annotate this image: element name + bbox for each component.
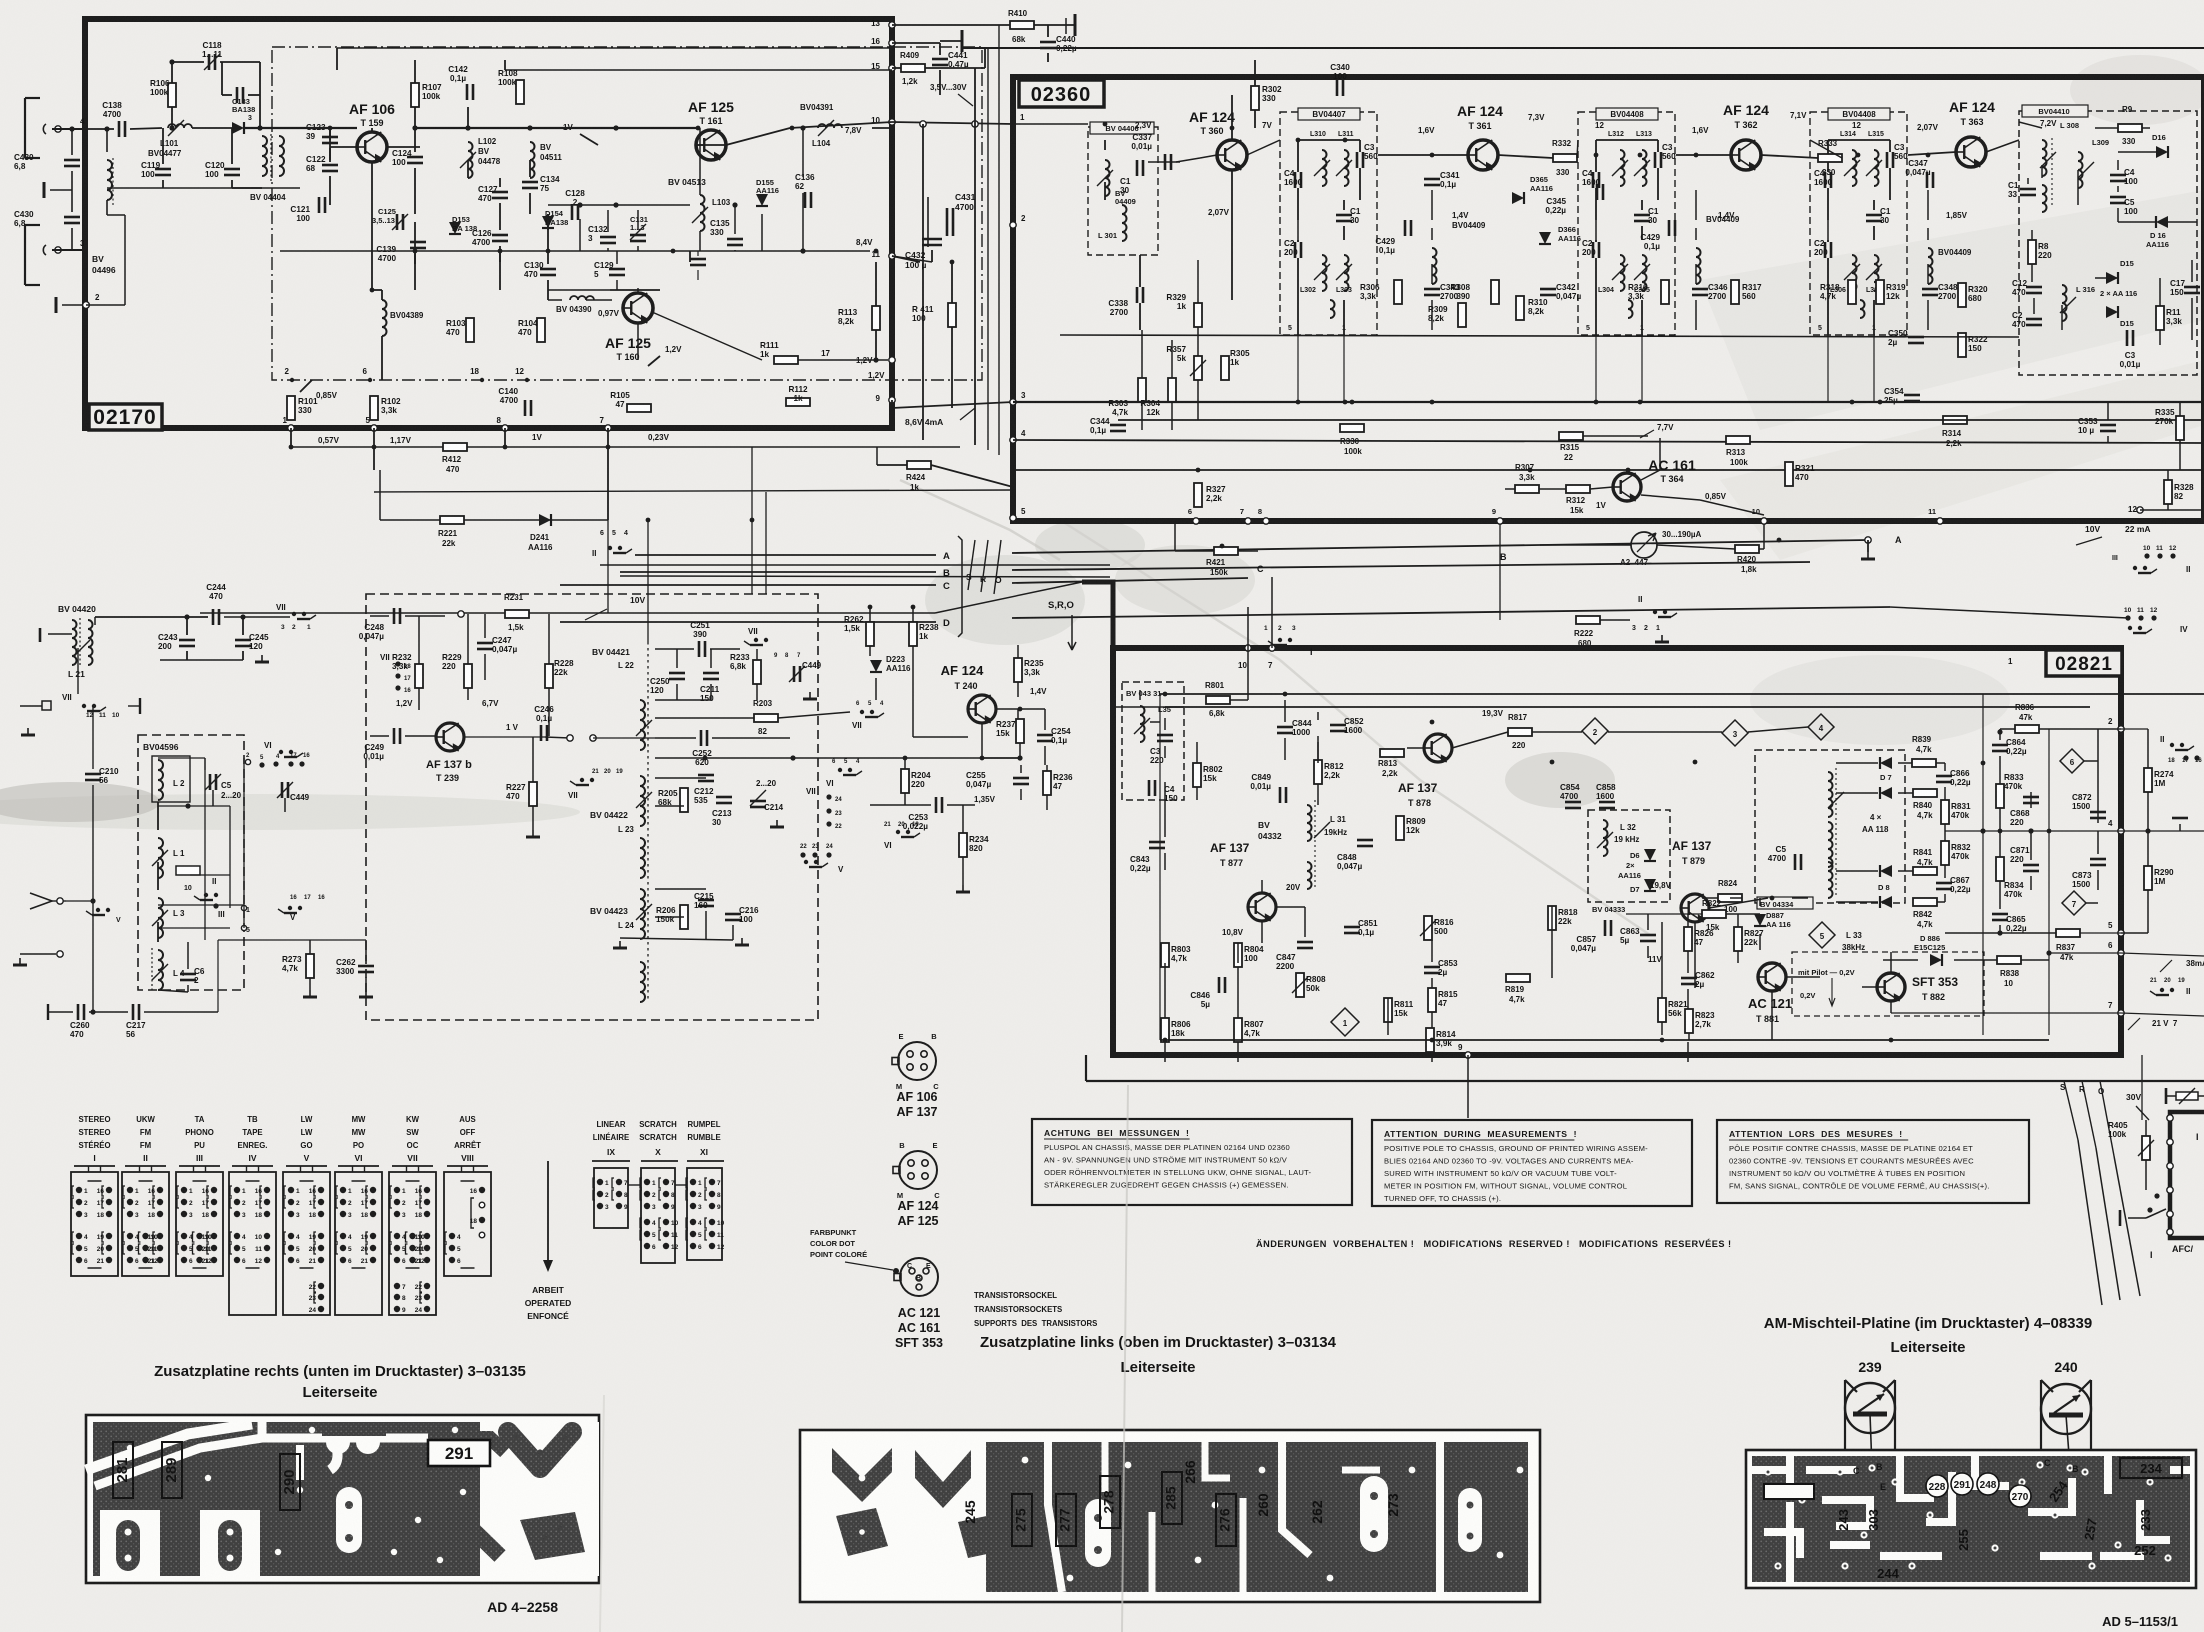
resistor R274 (2144, 768, 2152, 792)
resistor R804 (1234, 943, 1242, 967)
transistor socket AC121 AC161 SFT353 (900, 1258, 938, 1296)
inductor L308 (2042, 140, 2047, 176)
ground (741, 938, 743, 945)
inductor BV04409d (1928, 248, 1933, 284)
label 02170 (89, 404, 162, 430)
resistor R290 (2144, 866, 2152, 890)
dash box BV04333 (1588, 810, 1670, 902)
capacitor C865 (1992, 913, 2008, 916)
resistor R320 (1958, 283, 1966, 307)
resistor R409 (901, 64, 925, 72)
switch contact (1288, 638, 1292, 642)
capacitor C12 (2026, 286, 2042, 289)
resistor R310 (1516, 296, 1524, 320)
inductor L21 core (77, 648, 79, 694)
capacitor C340 (1336, 80, 1339, 96)
capacitor C2 200 (1824, 242, 1827, 258)
trim resistor top (2176, 1092, 2198, 1100)
resistor R329 (1194, 303, 1202, 327)
transistor T364 AC161 (1613, 473, 1641, 501)
coupling coil (1628, 300, 1633, 318)
transistor T881 AC121 (1758, 963, 1786, 991)
resistor R816 (1424, 916, 1432, 940)
switch contact (2133, 566, 2137, 570)
capacitor C214 trim (750, 800, 766, 803)
resistor R357 (1194, 356, 1202, 380)
long wire r801 (1160, 693, 2204, 695)
capacitor C5 dec (1794, 854, 1797, 870)
capacitor C858 (1599, 801, 1615, 804)
capacitor C123 (322, 136, 338, 139)
input coil BV04496 (107, 160, 112, 200)
diode D154 BA138 (542, 216, 554, 228)
resistor R227 (529, 782, 537, 806)
dash box BV04334 (1755, 750, 1905, 903)
capacitor C244 (212, 609, 215, 625)
ground (27, 728, 29, 735)
capacitor C344 (1110, 424, 1126, 427)
capacitor C3 b (2126, 330, 2129, 346)
switch contact (860, 710, 864, 714)
resistor R405 (2142, 1136, 2150, 1160)
capacitor C6 (180, 973, 196, 976)
capacitor C848 (1357, 839, 1373, 842)
switch contact (214, 893, 218, 897)
capacitor C128 (571, 204, 574, 220)
inductor lower (1322, 255, 1327, 291)
long wire 1040 (1160, 1039, 2049, 1041)
inductor L103 BV04513 (700, 195, 705, 231)
inductor BV04409c (1696, 248, 1701, 284)
dash box BV04596 (138, 735, 244, 990)
inductor L35 (1140, 706, 1145, 742)
coupling coil (1860, 300, 1865, 318)
resistor R313 (1726, 436, 1750, 444)
capacitor C213 (716, 796, 732, 799)
capacitor C254 (1037, 734, 1053, 737)
resistor R203 (754, 714, 778, 722)
resistor R309 (1458, 303, 1466, 327)
capacitor C857 (1604, 920, 1607, 936)
capacitor C337 (1164, 154, 1167, 170)
resistor R229 (464, 664, 472, 688)
capacitor C846 (1218, 977, 1221, 993)
capacitor C1 30 (1336, 214, 1352, 217)
terminal sq (42, 701, 51, 710)
bus line C (560, 584, 936, 586)
resistor R807 (1234, 1018, 1242, 1042)
capacitor C134 (522, 181, 538, 184)
module box 02170 (85, 19, 892, 428)
transformer BV04404 (262, 136, 267, 176)
wire pins down (290, 428, 292, 447)
transistor T361 (1468, 140, 1498, 170)
resistor R420 (1735, 545, 1759, 553)
diode quad D7 (1880, 757, 1892, 769)
note box english (1372, 1120, 1692, 1206)
transistor T360 AF124 (1217, 140, 1247, 170)
inductor BV04390 (570, 296, 594, 300)
pcb board 3 body (1746, 1450, 2196, 1588)
arbeit arrow (547, 1161, 549, 1262)
resistor R832 (1941, 841, 1949, 865)
capacitor C3 560 (1356, 152, 1359, 168)
capacitor C449b (793, 666, 796, 682)
transistor T240 AF124 (968, 695, 996, 723)
capacitor C873 (2090, 858, 2106, 861)
wire 2821 lower bus (1086, 1080, 2204, 1082)
switch contact (298, 906, 302, 910)
capacitor C1 30 (1634, 214, 1650, 217)
capacitor C432 electrolytic (922, 238, 942, 241)
capacitor C345 (1596, 184, 1599, 200)
capacitor C867 (1936, 882, 1952, 885)
resistor R322 (1958, 333, 1966, 357)
wire vertical 648 (647, 520, 649, 642)
wire verticals to mixer (607, 520, 609, 613)
antenna bracket bottom (24, 225, 26, 285)
resistor R821 (1658, 998, 1666, 1022)
resistor R308 (1491, 280, 1499, 304)
ground C440 (1074, 25, 1076, 35)
capacitor C132 (600, 236, 616, 239)
diamond 4 (1808, 714, 1834, 740)
resistor R314 (1943, 416, 1967, 424)
capacitor C125 trim (396, 214, 399, 230)
resistor R303 (1138, 378, 1146, 402)
capacitor C126 (492, 234, 508, 237)
note box german (1032, 1119, 1352, 1205)
resistor R837 (2056, 929, 2080, 937)
bus wire 335 (1060, 335, 2019, 337)
switch contact (2128, 626, 2132, 630)
capacitor C844 (1277, 726, 1293, 729)
switch contact (279, 750, 283, 754)
diode quad D8 (1880, 896, 1892, 908)
capacitor C346 (1692, 288, 1708, 291)
wire y492 (374, 490, 1013, 492)
note box french (1717, 1120, 2029, 1203)
verticals between boxes (922, 124, 924, 440)
capacitor C1 30 (1136, 160, 1139, 176)
capacitor C247 (477, 642, 493, 645)
capacitor C216 (725, 913, 741, 916)
capacitor C119 (155, 168, 171, 171)
resistor R234 (959, 833, 967, 857)
wire bottom 9 (891, 400, 893, 408)
resistor R808 (1296, 973, 1304, 997)
ground (809, 692, 811, 699)
bus wire (1013, 469, 2204, 471)
capacitor C431 (946, 208, 949, 236)
transformer box BV04408 (1578, 112, 1675, 335)
resistor R103 (466, 318, 474, 342)
capacitor C135 (727, 238, 743, 241)
resistor R321 (1785, 462, 1793, 486)
resistor R101 (287, 396, 295, 420)
bus line B (620, 571, 936, 573)
resistor R827 (1734, 927, 1742, 951)
capacitor C142 (466, 84, 469, 100)
transistor T882 SFT353 (1877, 973, 1905, 1001)
transformer box BV04406 (1088, 127, 1158, 255)
resistor R839 (1912, 759, 1936, 767)
inductor L102 BV04478 (468, 142, 473, 178)
resistor R424 (907, 461, 931, 469)
capacitor C246 (540, 725, 543, 741)
capacitor C849 (1279, 787, 1282, 803)
switch contact (804, 860, 808, 864)
resistor R236 (1043, 771, 1051, 795)
wire long y48 (337, 47, 892, 49)
capacitor C243 (179, 639, 195, 642)
capacitor C847 (1297, 941, 1313, 944)
resistor R204 (901, 769, 909, 793)
capacitor C843 (1149, 841, 1165, 844)
capacitor C251 (698, 641, 701, 657)
wire sro to box (2078, 1140, 2102, 1305)
capacitor C253 (935, 797, 938, 813)
wire top 13 (892, 24, 1010, 26)
resistor R809 (1396, 816, 1404, 840)
dash box BV04331 (1122, 682, 1184, 800)
resistor R8 (2028, 240, 2036, 264)
wire 02170 infill (548, 204, 690, 206)
diode D365 (1512, 192, 1524, 204)
transistor T879 AF137 (1681, 894, 1709, 922)
diamond 7 (2062, 891, 2086, 915)
switch contact (82, 704, 86, 708)
resistor R817 (1508, 728, 1532, 736)
wires right block (1836, 762, 1878, 764)
bus line D (560, 621, 936, 623)
resistor R9 (2118, 124, 2142, 132)
diode D15 b (2106, 306, 2118, 318)
capacitor C343 (1424, 288, 1440, 291)
wire 15 (892, 67, 901, 69)
capacitor C139 (410, 241, 426, 244)
resistor R824 (1718, 894, 1742, 902)
antenna bracket top (24, 98, 26, 158)
wires bv04410 (2019, 122, 2042, 128)
inductor L104 BV04391 (818, 124, 842, 128)
transformer box BV04408 (1810, 112, 1907, 335)
capacitor C121 (318, 197, 321, 213)
bus wire (1013, 401, 2204, 403)
switch contact (838, 768, 842, 772)
resistor R105 (627, 404, 651, 412)
diode D152 BA138 (232, 122, 244, 134)
shield dash-dot box (272, 47, 982, 380)
capacitor C120 (224, 168, 240, 171)
wire down right (2141, 1055, 2143, 1120)
switch contact (896, 830, 900, 834)
capacitor C211 (703, 672, 719, 675)
capacitor C4 1600 (1592, 172, 1595, 188)
capacitor C5 b (2110, 196, 2126, 199)
wire y70 inner (505, 69, 892, 71)
capacitor C136b (690, 258, 706, 261)
switch contact (2170, 743, 2174, 747)
inductor lower (1852, 255, 1857, 291)
transistor T160 AF125 (623, 293, 653, 323)
wire 10V (200, 612, 935, 614)
diamond 1 (1331, 1008, 1359, 1036)
capacitor C441 (932, 58, 948, 61)
capacitor C4 1600 (1294, 172, 1297, 188)
resistor R305 (1221, 356, 1229, 380)
wire stage verticals (1297, 335, 1299, 402)
ground (532, 830, 534, 837)
resistor R262 (866, 622, 874, 646)
resistor outline 291 (428, 1440, 490, 1466)
resistor R842 (1913, 898, 1937, 906)
dash box BV04410 (2019, 111, 2197, 375)
capacitor C341 (1424, 178, 1440, 181)
resistor R112 (786, 398, 810, 406)
inductor L3 (158, 898, 163, 938)
resistor R315 (1559, 432, 1583, 440)
capacitor C249 (393, 728, 396, 744)
transistor T878 AF137 (1424, 734, 1452, 762)
resistor R803 (1161, 943, 1169, 967)
capacitor C133v (236, 87, 239, 103)
inductor L4 (158, 950, 163, 990)
switch contact (2170, 988, 2174, 992)
transistor socket AF124 AF125 (899, 1151, 937, 1189)
contacts row (245, 759, 250, 764)
wire col 72 (71, 129, 73, 155)
capacitor C854 (1565, 801, 1581, 804)
resistor R108 (516, 80, 524, 104)
diode D886 (1930, 954, 1942, 966)
inductor L2 (158, 760, 163, 800)
ground (19, 958, 21, 965)
module box 02360 (1013, 77, 2204, 521)
resistor R111 (774, 356, 798, 364)
inductor L1 (158, 838, 163, 878)
resistor R306 (1394, 280, 1402, 304)
capacitor C4 b (2110, 174, 2126, 177)
resistor R806 (1161, 1018, 1169, 1042)
resistor R327 (1194, 483, 1202, 507)
resistor R411 (948, 303, 956, 327)
ground (776, 820, 778, 827)
scan smudge (0, 794, 580, 830)
junction dots texture (170, 126, 175, 131)
ground (1867, 552, 1869, 559)
resistor R11 (2156, 306, 2164, 330)
switch contact (1653, 610, 1657, 614)
capacitor C262 (358, 965, 374, 968)
capacitor C4 dec (1148, 780, 1151, 796)
resistor R231 (505, 610, 529, 618)
wires 02821 internal (1113, 706, 1184, 708)
diode D15 (2106, 272, 2118, 284)
capacitor C354 (1904, 394, 1920, 397)
resistor R818 (1548, 906, 1556, 930)
diode D16 (2156, 146, 2168, 158)
capacitor C252 (700, 730, 703, 746)
resistor R113 (872, 306, 880, 330)
inductor BV04389 (382, 300, 387, 336)
diode D16 b (2156, 216, 2168, 228)
inductor L101 BV04477 (168, 124, 192, 128)
capacitor C2 470 (2026, 318, 2042, 321)
diode D223 (870, 660, 882, 672)
capacitor C138 (118, 121, 121, 137)
capacitor C2 200 (1592, 242, 1595, 258)
wire stage verticals (1827, 335, 1829, 402)
table links (628, 1184, 641, 1186)
wire meter (1540, 544, 1631, 546)
resistor R822 (1702, 910, 1726, 918)
wire D241 row (380, 519, 608, 521)
capacitor C245 (235, 639, 251, 642)
terminal 2 (83, 302, 90, 309)
resistor R104 (537, 318, 545, 342)
bus line A (635, 554, 936, 556)
resistor R307 (1515, 485, 1539, 493)
capacitor C217 (132, 1004, 135, 1020)
resistor R317 (1731, 280, 1739, 304)
resistor R841 (1913, 867, 1937, 875)
resistor R106 (168, 83, 176, 107)
antenna terminal 3 (55, 247, 61, 253)
capacitor C210 (85, 773, 101, 776)
wire row 188 (107, 187, 300, 189)
capacitor C127 (492, 191, 508, 194)
inductor BV04409b (1432, 248, 1437, 284)
resistor R221 (440, 516, 464, 524)
diamond 5 (1809, 922, 1835, 948)
capacitor C852 (1330, 724, 1346, 727)
capacitor C17 (2184, 286, 2200, 289)
wires bv04596 (157, 802, 159, 830)
dash box pilot (1792, 952, 1984, 1016)
transistor T362 (1731, 140, 1761, 170)
capacitor C430 (64, 216, 80, 219)
switch contact (590, 778, 594, 782)
transformer box BV04407 (1280, 112, 1377, 335)
capacitor C136b (804, 192, 807, 208)
capacitor C350 (1908, 336, 1924, 339)
resistor R836 (2015, 725, 2039, 733)
inductor BV04511 (530, 142, 535, 178)
capacitor C3 560 (1654, 152, 1657, 168)
capacitor C3 dec (1157, 734, 1173, 737)
wire pin9 down (1499, 521, 1501, 620)
wire top 16 (892, 42, 940, 44)
wire (52, 249, 86, 251)
transistor T363 (1956, 137, 1986, 167)
capacitor C338 (1136, 287, 1139, 303)
resistor R813 (1380, 749, 1404, 757)
switch contact (292, 612, 296, 616)
diode D6 (1644, 849, 1656, 861)
capacitor C868 (2023, 796, 2039, 799)
wires right pins 2821 (2121, 728, 2148, 730)
resistor R235 (1014, 658, 1022, 682)
diamond 6 (2060, 749, 2084, 773)
capacitor C250 (669, 672, 685, 675)
bus wire (1013, 440, 2204, 443)
resistor R316 (1661, 280, 1669, 304)
diamond 2 (1582, 718, 1608, 744)
resistor R233 (753, 660, 761, 684)
capacitor C429a (1404, 220, 1407, 236)
resistor R833 (1996, 784, 2004, 808)
